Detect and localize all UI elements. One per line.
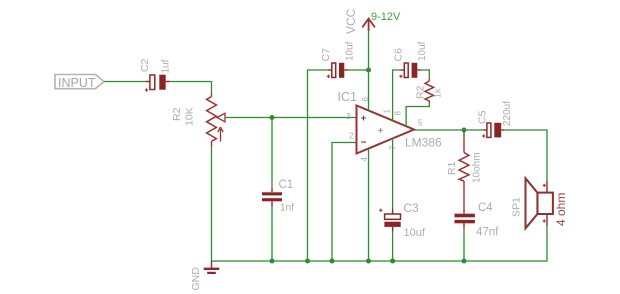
svg-text:GND: GND: [190, 267, 202, 291]
svg-text:R1: R1: [446, 161, 458, 175]
svg-text:10ohm: 10ohm: [472, 152, 483, 183]
svg-text:C7: C7: [320, 48, 332, 62]
wire C1 to rail: [271, 207, 273, 262]
op-amp IC1 LM386: [338, 90, 443, 162]
svg-text:1k: 1k: [433, 88, 443, 98]
speaker SP1: [511, 178, 569, 228]
capacitor C5: [477, 101, 514, 138]
svg-text:C1: C1: [279, 179, 294, 191]
wire C7 left to rail: [308, 70, 329, 261]
wire pin 4 to rail: [368, 149, 370, 261]
capacitor C3: [379, 201, 426, 239]
node rail junction C7 return: [305, 259, 310, 264]
wire C4 to rail: [463, 228, 465, 261]
wire wiper to op-amp pin 3: [225, 117, 357, 119]
svg-text:5: 5: [418, 119, 423, 128]
wire pin 1 to C6: [393, 70, 401, 121]
wire C3 to rail: [392, 232, 394, 262]
svg-text:8: 8: [394, 111, 403, 116]
svg-text:LM386: LM386: [405, 136, 442, 150]
svg-text:47nf: 47nf: [476, 227, 499, 239]
wire op-amp pin 2 loop to rail: [332, 143, 357, 262]
node junction wiper/C1: [270, 115, 275, 120]
resistor R1 10ohm: [446, 131, 483, 214]
svg-text:C6: C6: [393, 48, 405, 62]
capacitor C7: [320, 41, 356, 78]
svg-text:R2: R2: [171, 107, 183, 121]
svg-text:10K: 10K: [184, 107, 196, 126]
wire C6 right to R2 1k: [421, 70, 430, 79]
wire speaker to rail: [546, 226, 549, 262]
wire C7 right to junction: [348, 69, 369, 71]
capacitor C2: [139, 58, 172, 91]
svg-text:INPUT: INPUT: [58, 76, 96, 90]
wire pot bottom to ground rail: [211, 147, 213, 262]
capacitor C4: [455, 202, 500, 239]
node rail junction pin 4: [366, 259, 371, 264]
ground GND: [190, 261, 219, 291]
wire ground rail: [212, 260, 548, 262]
svg-text:9-12V: 9-12V: [371, 11, 401, 23]
capacitor C1: [262, 179, 294, 214]
node rail junction C3: [390, 259, 395, 264]
svg-text:2: 2: [349, 132, 354, 141]
svg-text:C2: C2: [139, 58, 151, 72]
svg-text:4 ohm: 4 ohm: [554, 193, 568, 226]
connector J1 INPUT: [55, 75, 104, 91]
svg-text:1uf: 1uf: [161, 59, 172, 73]
wire R2 1k to pin 8: [406, 103, 429, 126]
node rail junction C4: [462, 259, 467, 264]
svg-text:1: 1: [383, 109, 392, 114]
svg-text:SP1: SP1: [511, 197, 523, 217]
wire op-amp output pin 5: [414, 129, 484, 131]
svg-text:VCC: VCC: [344, 8, 358, 34]
svg-text:1nf: 1nf: [280, 203, 294, 214]
potentiometer R2 10K: [171, 92, 225, 146]
svg-text:3: 3: [346, 112, 351, 121]
capacitor C6: [393, 41, 429, 78]
wire C2 to R2 pot: [170, 82, 211, 93]
resistor R2 1k: [415, 79, 443, 103]
wire INPUT to C2: [104, 81, 146, 83]
svg-text:C3: C3: [404, 201, 420, 215]
svg-text:4: 4: [360, 157, 369, 162]
svg-text:10uf: 10uf: [345, 41, 356, 61]
node junction VCC/C7: [366, 68, 371, 73]
svg-text:C4: C4: [478, 202, 493, 214]
svg-text:IC1: IC1: [338, 90, 358, 104]
node rail junction C1: [270, 259, 275, 264]
svg-text:220uf: 220uf: [502, 101, 513, 126]
node rail junction pin 2: [330, 259, 335, 264]
svg-text:10uf: 10uf: [417, 41, 428, 61]
svg-text:C5: C5: [477, 110, 489, 124]
power VCC: [344, 8, 375, 34]
svg-text:10uf: 10uf: [404, 227, 426, 239]
svg-text:R2: R2: [415, 85, 427, 99]
wire pin 7 to C3: [392, 138, 394, 209]
wire C5 to speaker: [505, 130, 547, 181]
wire pin 6 to VCC: [368, 30, 370, 111]
node junction output/R1/C5: [462, 128, 467, 133]
wire junction to C1: [271, 118, 273, 188]
